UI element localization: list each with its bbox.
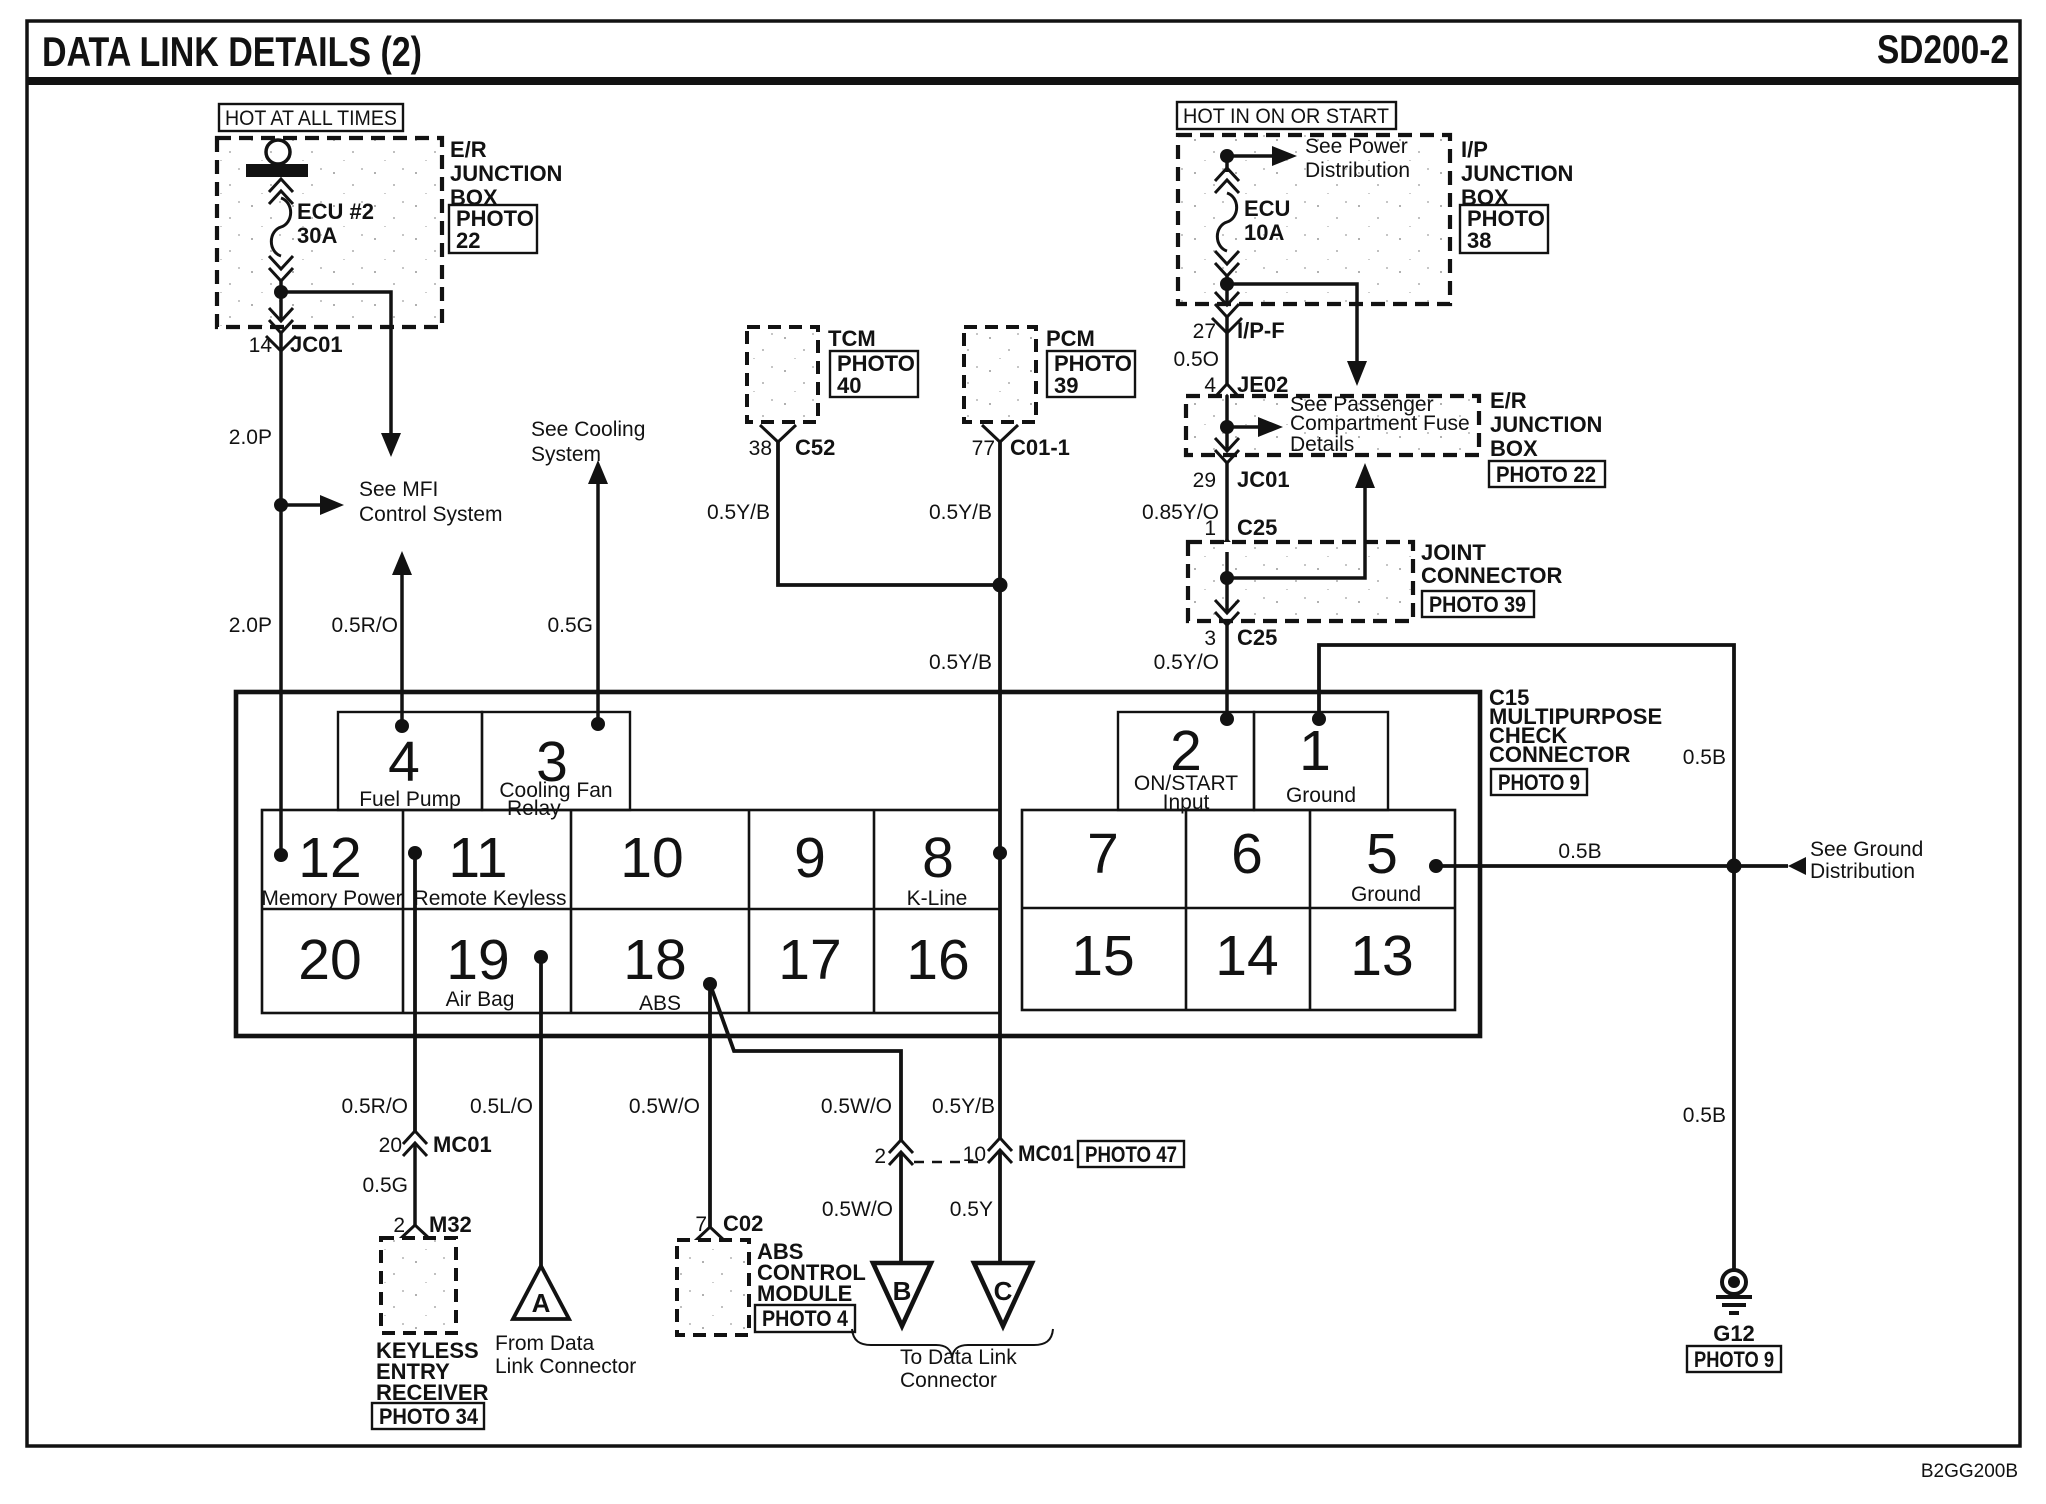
main grid left block (pins 12-8 / 20-16) xyxy=(262,810,1000,1013)
svg-text:4: 4 xyxy=(388,730,420,794)
svg-text:0.5Y/B: 0.5Y/B xyxy=(707,501,770,524)
svg-text:39: 39 xyxy=(1054,373,1078,398)
pin 1 node dot xyxy=(1312,712,1326,726)
svg-text:G12: G12 xyxy=(1713,1321,1755,1346)
svg-text:2.0P: 2.0P xyxy=(229,426,272,449)
svg-text:Memory Power: Memory Power xyxy=(261,887,402,910)
svg-text:See MFI: See MFI xyxy=(359,478,438,501)
svg-text:C02: C02 xyxy=(723,1211,763,1236)
svg-text:1: 1 xyxy=(1204,517,1216,540)
svg-text:Ground: Ground xyxy=(1351,883,1421,906)
svg-text:2: 2 xyxy=(393,1214,405,1237)
svg-text:0.5W/O: 0.5W/O xyxy=(821,1095,892,1118)
svg-text:SD200-2: SD200-2 xyxy=(1877,28,2009,72)
svg-text:Ground: Ground xyxy=(1286,784,1356,807)
fuse element squiggle xyxy=(271,198,290,256)
svg-text:0.5G: 0.5G xyxy=(547,614,593,637)
svg-text:Control System: Control System xyxy=(359,503,503,526)
svg-text:B: B xyxy=(893,1276,912,1306)
node: I/P box lower junction xyxy=(1220,277,1234,291)
svg-text:40: 40 xyxy=(837,373,861,398)
PHOTO 9 callout box (G12) xyxy=(1687,1346,1781,1372)
wire 0.5G: pin 3 up-arrow to cooling xyxy=(596,472,600,724)
svg-text:0.5B: 0.5B xyxy=(1683,746,1726,769)
pin 3 node dot xyxy=(591,717,605,731)
PHOTO 4 callout box xyxy=(755,1305,855,1332)
connector I/P-F chevrons xyxy=(1215,292,1239,317)
wire 0.5Y/O: C25 to pin 2 xyxy=(1225,625,1229,719)
svg-text:Distribution: Distribution xyxy=(1810,860,1915,883)
connector JC01 chevrons xyxy=(269,308,293,333)
wire 0.5Y: chevron to triangle C xyxy=(998,1150,1002,1263)
PHOTO 47 callout box xyxy=(1078,1141,1184,1167)
svg-text:38: 38 xyxy=(1467,228,1491,253)
svg-text:ECU: ECU xyxy=(1244,196,1290,221)
wire 0.5W/O: chevron to triangle B xyxy=(899,1152,903,1263)
PHOTO 34 callout box xyxy=(372,1403,484,1429)
wire 0.5G: MC01 to M32 xyxy=(413,1143,417,1226)
title separator rule xyxy=(27,77,2020,85)
svg-text:See Cooling: See Cooling xyxy=(531,418,645,441)
svg-text:From Data: From Data xyxy=(495,1332,595,1355)
svg-text:0.5Y/B: 0.5Y/B xyxy=(929,501,992,524)
svg-text:DATA LINK DETAILS (2): DATA LINK DETAILS (2) xyxy=(42,28,422,75)
wire: junction down across box edge xyxy=(1225,284,1229,305)
wire: junction down to JC01 xyxy=(279,292,283,321)
ground G12 symbol xyxy=(1716,1270,1752,1313)
svg-text:0.5W/O: 0.5W/O xyxy=(822,1198,893,1221)
svg-text:BOX: BOX xyxy=(1490,436,1538,461)
cell 3 box xyxy=(482,712,630,810)
keyless entry receiver box (dashed) xyxy=(381,1238,456,1333)
svg-text:See Ground: See Ground xyxy=(1810,838,1923,861)
node: K-line junction TCM/PCM xyxy=(993,578,1008,593)
svg-text:Air Bag: Air Bag xyxy=(446,988,515,1011)
connector JC01-2 chevrons xyxy=(1215,438,1239,463)
PHOTO 40 callout box xyxy=(830,351,918,397)
svg-text:MODULE: MODULE xyxy=(757,1281,852,1306)
svg-text:C01-1: C01-1 xyxy=(1010,435,1070,460)
svg-text:14: 14 xyxy=(249,334,273,357)
svg-text:0.5G: 0.5G xyxy=(362,1174,408,1197)
arrowhead left (See Ground Distribution) xyxy=(1788,857,1806,875)
wire 2.0P lower: node down to pin 12 xyxy=(279,505,283,855)
E/R junction box (dashed) xyxy=(217,138,442,327)
svg-text:JC01: JC01 xyxy=(290,332,343,357)
fuse element squiggle xyxy=(1217,193,1236,251)
wire 0.85Y/O: JC01 to C25 xyxy=(1225,463,1229,540)
connector I/P-F fork xyxy=(1212,318,1242,333)
svg-text:0.5L/O: 0.5L/O xyxy=(470,1095,533,1118)
svg-text:9: 9 xyxy=(794,826,826,890)
PHOTO 39 callout box xyxy=(1047,351,1135,397)
svg-text:77: 77 xyxy=(972,437,995,460)
svg-text:JOINT: JOINT xyxy=(1421,540,1486,565)
arrowhead right (See Passenger) xyxy=(1258,417,1283,437)
svg-text:JUNCTION: JUNCTION xyxy=(1490,412,1602,437)
wire: branch to MFI arrow (right then down) xyxy=(281,292,391,444)
svg-text:C25: C25 xyxy=(1237,625,1277,650)
wire: C25 into joint connector xyxy=(1225,552,1229,578)
wire: arrow to passenger fuse details xyxy=(1227,425,1264,429)
svg-text:0.5R/O: 0.5R/O xyxy=(341,1095,408,1118)
wire 2.0P: JC01 down to MFI node xyxy=(279,333,283,505)
pin 8 node dot xyxy=(993,846,1007,860)
wire: junction down across joint box bottom xyxy=(1225,578,1229,613)
wire junction down across box bottom xyxy=(1225,427,1229,451)
svg-text:PCM: PCM xyxy=(1046,326,1095,351)
wire 0.5W/O: pin 18 down to C02 xyxy=(708,984,712,1227)
svg-text:38: 38 xyxy=(749,437,772,460)
arrowhead up (pin 4 wire) xyxy=(392,551,412,575)
wire: branch right then down to E/R box arrow xyxy=(1227,284,1357,372)
svg-text:0.5Y/B: 0.5Y/B xyxy=(932,1095,995,1118)
svg-text:Distribution: Distribution xyxy=(1305,159,1410,182)
svg-text:HOT AT ALL TIMES: HOT AT ALL TIMES xyxy=(225,107,397,130)
wire 0.5R/O: pin 11 down to MC01 xyxy=(413,853,417,1131)
svg-text:A: A xyxy=(532,1288,551,1318)
svg-text:0.5Y: 0.5Y xyxy=(950,1198,993,1221)
svg-text:Relay: Relay xyxy=(507,797,561,820)
svg-text:M32: M32 xyxy=(429,1212,472,1237)
svg-text:4: 4 xyxy=(1204,374,1216,397)
fuse bar xyxy=(246,164,308,177)
svg-text:JE02: JE02 xyxy=(1237,372,1288,397)
PHOTO 22 callout box xyxy=(449,205,537,253)
svg-text:14: 14 xyxy=(1215,924,1278,988)
I/P junction box (dashed) xyxy=(1178,135,1450,304)
fuse chevrons (bottom) xyxy=(269,256,293,281)
arrowhead down (to E/R junction box) xyxy=(1347,361,1367,386)
wire: joint connector branch up-arrow xyxy=(1227,477,1365,578)
svg-text:ABS: ABS xyxy=(639,992,681,1015)
HOT IN ON OR START label xyxy=(1177,102,1396,129)
svg-text:6: 6 xyxy=(1231,822,1263,886)
wire 0.5L/O: pin 19 down to triangle A xyxy=(539,957,543,1266)
connector C02 fork xyxy=(694,1227,726,1242)
svg-text:HOT IN ON OR START: HOT IN ON OR START xyxy=(1183,105,1389,128)
svg-text:C: C xyxy=(994,1276,1013,1306)
PCM box (dashed) xyxy=(964,327,1036,422)
arrowhead right (See MFI) xyxy=(320,495,344,515)
svg-text:JC01: JC01 xyxy=(1237,467,1290,492)
svg-text:Remote Keyless: Remote Keyless xyxy=(414,887,567,910)
svg-text:2.0P: 2.0P xyxy=(229,614,272,637)
svg-text:0.5Y/O: 0.5Y/O xyxy=(1154,651,1219,674)
connector C01-1 fork xyxy=(982,425,1018,442)
svg-text:C25: C25 xyxy=(1237,515,1277,540)
svg-text:0.5Y/B: 0.5Y/B xyxy=(929,651,992,674)
joint connector box (dashed) xyxy=(1188,542,1413,621)
svg-text:10: 10 xyxy=(620,826,683,890)
svg-text:To Data Link: To Data Link xyxy=(900,1346,1017,1369)
svg-text:13: 13 xyxy=(1350,924,1413,988)
svg-text:RECEIVER: RECEIVER xyxy=(376,1380,489,1405)
svg-text:PHOTO 4: PHOTO 4 xyxy=(762,1306,849,1331)
node: joint connector junction xyxy=(1220,571,1234,585)
svg-text:29: 29 xyxy=(1193,469,1216,492)
svg-text:20: 20 xyxy=(298,928,361,992)
svg-text:30A: 30A xyxy=(297,223,337,248)
wire: fuse to junction xyxy=(279,281,283,292)
wire: fuse to lower junction xyxy=(1225,276,1229,284)
svg-text:B2GG200B: B2GG200B xyxy=(1921,1461,2018,1482)
svg-text:K-Line: K-Line xyxy=(907,887,968,910)
svg-text:C52: C52 xyxy=(795,435,835,460)
svg-text:System: System xyxy=(531,443,601,466)
arrowhead right (See Power Distribution) xyxy=(1272,146,1297,166)
svg-text:0.5R/O: 0.5R/O xyxy=(331,614,398,637)
svg-text:27: 27 xyxy=(1193,320,1216,343)
svg-text:PHOTO 47: PHOTO 47 xyxy=(1085,1142,1177,1167)
connector C15 outer box xyxy=(236,692,1480,1036)
svg-text:16: 16 xyxy=(906,928,969,992)
fuse ECU 10A chevrons (top) xyxy=(1215,168,1239,193)
wire 0.5Y/B through connector to MC01 xyxy=(998,692,1002,1138)
cell 1 box xyxy=(1254,712,1388,810)
pin 19 node dot xyxy=(534,950,548,964)
wire: arrow to See Power Distribution xyxy=(1227,154,1278,158)
cell 4 box xyxy=(338,712,482,810)
svg-text:5: 5 xyxy=(1366,822,1398,886)
PHOTO 38 callout box xyxy=(1460,205,1548,253)
svg-text:0.5W/O: 0.5W/O xyxy=(629,1095,700,1118)
pin 5 node dot xyxy=(1429,859,1443,873)
svg-text:Details: Details xyxy=(1290,433,1354,456)
PHOTO 39 callout box 2 xyxy=(1422,591,1534,617)
off-page triangle A xyxy=(513,1266,569,1319)
node: ground wire junction xyxy=(1727,859,1742,874)
svg-text:Fuel Pump: Fuel Pump xyxy=(359,788,461,811)
svg-text:7: 7 xyxy=(1087,822,1119,886)
svg-text:Compartment Fuse: Compartment Fuse xyxy=(1290,412,1470,435)
svg-text:20: 20 xyxy=(379,1134,402,1157)
svg-text:Connector: Connector xyxy=(900,1369,997,1392)
PHOTO 9 callout box (C15) xyxy=(1491,769,1587,795)
connector C25-3 chevrons xyxy=(1215,600,1239,625)
connector JC01 fork xyxy=(266,336,296,351)
main grid right block (pins 7-5 / 15-13) xyxy=(1022,810,1455,1010)
wire 0.5R/O: pin 4 up-arrow to MFI xyxy=(400,563,404,726)
wire: junction to fuse xyxy=(1225,156,1229,172)
HOT AT ALL TIMES label xyxy=(219,104,403,131)
PHOTO 22 callout box 2 xyxy=(1489,461,1605,487)
connector MC01-2 chevrons xyxy=(889,1140,913,1165)
wire: JE02 into E/R box xyxy=(1225,396,1229,427)
pin 4 node dot xyxy=(395,719,409,733)
wire 0.5O: I/P-F to JE02 xyxy=(1225,317,1229,384)
node: E/R box junction xyxy=(274,285,288,299)
svg-text:I/P-F: I/P-F xyxy=(1237,318,1285,343)
svg-text:11: 11 xyxy=(448,826,507,890)
pin 2 node dot xyxy=(1220,712,1234,726)
svg-text:22: 22 xyxy=(456,228,480,253)
fuse ECU #2 30A: terminal ring xyxy=(266,140,290,164)
pin 12 node dot xyxy=(274,848,288,862)
wire: ground loop top (pin 1 up, right, down) xyxy=(1319,645,1734,1269)
node: E/R box 2 junction xyxy=(1220,420,1234,434)
svg-text:PHOTO 22: PHOTO 22 xyxy=(1496,462,1596,487)
fuse chevrons (bottom) xyxy=(1215,251,1239,276)
svg-text:2: 2 xyxy=(874,1145,886,1168)
node: MFI branch xyxy=(274,498,288,512)
svg-text:Link Connector: Link Connector xyxy=(495,1355,636,1378)
svg-text:E/R: E/R xyxy=(1490,388,1527,413)
svg-text:PHOTO 9: PHOTO 9 xyxy=(1498,770,1580,795)
brace under triangles B and C xyxy=(852,1329,1053,1358)
svg-text:CONNECTOR: CONNECTOR xyxy=(1489,742,1630,767)
svg-text:10A: 10A xyxy=(1244,220,1284,245)
svg-text:MC01: MC01 xyxy=(433,1132,492,1157)
connector C25 chevrons (top) xyxy=(1215,540,1239,565)
off-page triangle C xyxy=(974,1263,1032,1326)
connector M32 fork xyxy=(399,1225,431,1240)
arrowhead up (pin 3 wire) xyxy=(588,460,608,484)
svg-text:19: 19 xyxy=(446,928,509,992)
connector JE02 chevrons xyxy=(1215,384,1239,409)
svg-text:TCM: TCM xyxy=(828,326,876,351)
svg-text:CONNECTOR: CONNECTOR xyxy=(1421,563,1562,588)
svg-text:ECU #2: ECU #2 xyxy=(297,199,374,224)
svg-text:15: 15 xyxy=(1071,924,1134,988)
svg-text:8: 8 xyxy=(922,826,954,890)
off-page triangle B xyxy=(873,1263,931,1326)
node: I/P box top junction xyxy=(1220,149,1234,163)
svg-text:0.5O: 0.5O xyxy=(1173,348,1219,371)
svg-text:PHOTO 39: PHOTO 39 xyxy=(1429,592,1526,617)
E/R junction box 2 (dashed) xyxy=(1186,396,1479,455)
ABS control module box (dashed) xyxy=(677,1240,749,1335)
wire 0.5Y/B from TCM xyxy=(778,442,1000,585)
svg-text:7: 7 xyxy=(695,1213,707,1236)
wire: pin 18 branch diagonal to B xyxy=(710,984,901,1140)
TCM box (dashed) xyxy=(747,327,818,422)
wire: branch to See MFI arrow xyxy=(281,503,330,507)
svg-text:PHOTO 9: PHOTO 9 xyxy=(1694,1347,1774,1372)
svg-text:0.5B: 0.5B xyxy=(1683,1104,1726,1127)
dashed link between MC01 chevrons xyxy=(914,1161,986,1163)
svg-text:I/P: I/P xyxy=(1461,137,1488,162)
svg-text:PHOTO 34: PHOTO 34 xyxy=(379,1404,479,1429)
pin 18 node dot xyxy=(703,977,717,991)
svg-text:18: 18 xyxy=(623,928,686,992)
arrowhead up (joint connector to E/R box) xyxy=(1355,463,1375,488)
svg-text:JUNCTION: JUNCTION xyxy=(1461,161,1573,186)
svg-text:12: 12 xyxy=(298,826,361,890)
svg-text:3: 3 xyxy=(1204,627,1216,650)
connector MC01-20 chevrons xyxy=(403,1131,427,1156)
wire 0.5B: pin 5 to See Ground Distribution xyxy=(1436,864,1788,868)
svg-text:0.5B: 0.5B xyxy=(1558,840,1601,863)
pin 11 node dot xyxy=(408,846,422,860)
wire 0.5Y/B from PCM down xyxy=(998,442,1002,692)
svg-text:1: 1 xyxy=(1299,719,1331,783)
svg-text:E/R: E/R xyxy=(450,137,487,162)
cell 2 box xyxy=(1118,712,1254,810)
arrowhead down (to See MFI Control System) xyxy=(381,433,401,457)
connector C52 fork xyxy=(760,425,796,442)
svg-text:MC01: MC01 xyxy=(1018,1141,1074,1166)
fuse chevrons (top) xyxy=(269,179,293,204)
svg-text:See Power: See Power xyxy=(1305,135,1408,158)
svg-text:JUNCTION: JUNCTION xyxy=(450,161,562,186)
svg-text:17: 17 xyxy=(778,928,841,992)
connector MC01-10 chevrons xyxy=(988,1138,1012,1163)
